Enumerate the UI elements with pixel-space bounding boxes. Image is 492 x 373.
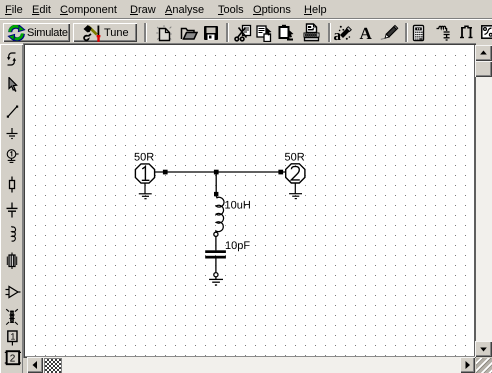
Simulate button [3,23,70,42]
palette: amplifier tool [4,284,21,300]
svg-text:10pF: 10pF [225,240,250,252]
h-scroll right button [460,357,476,373]
text tool icon [359,24,375,42]
junction node A [163,170,168,175]
palette: undo/redo tool [4,51,20,67]
palette: port/source tool [4,147,21,164]
palette: ground tool [4,126,20,142]
LC filter design icon [436,25,452,41]
v-scroll up button [475,45,492,61]
svg-text:50R: 50R [134,152,154,164]
screwdriver shaft [97,26,99,36]
palette: resistor tool [4,176,20,193]
junction node C [278,170,283,175]
open folder icon [180,26,198,41]
wire stub to ground [215,277,217,279]
print icon [302,23,321,42]
svg-text:50R: 50R [285,152,305,164]
terminal node (C-gnd) [214,273,218,277]
erase icon [333,24,352,42]
wire tee down to inductor [215,172,217,193]
wrench ring [84,36,89,41]
corner resize grip [476,358,492,373]
svg-text:10uH: 10uH [225,200,251,212]
svg-text:A: A [360,24,373,42]
svg-text:2: 2 [10,354,16,365]
svg-text:1: 1 [10,332,15,342]
terminal node (L-C) [214,232,218,236]
port 1 (50R source) [135,164,154,183]
wire L to C [215,237,217,251]
Tune button [73,23,137,42]
hammer handle [89,27,97,35]
palette: attenuator tool [4,252,20,270]
palette: inductor tool [4,225,20,242]
h-scroll thumb (checkered) [44,358,62,373]
hammer head [84,25,92,32]
ground (port 2) [289,183,302,198]
v-scroll thumb [475,61,492,77]
canvas bottom sunken edge [25,356,475,357]
palette: port 1 tool [4,329,20,348]
ground (shunt branch) [209,279,223,285]
wire port1 to port2 [155,171,286,173]
pencil icon [379,24,399,42]
cut icon [233,24,253,42]
palette: wire tool [4,104,20,120]
palette: port 2 tool [3,350,21,366]
ground (port 1) [139,183,152,198]
canvas right sunken edge [474,45,476,358]
inductor L1 10uH [216,196,224,232]
palette: capacitor tool [4,202,20,218]
vertical scrollbar track [476,45,492,357]
port 2 (50R load) [286,164,305,183]
match/smith-chart icon [481,25,492,39]
terminal pin (inductor top) [214,192,218,196]
h-scroll left button [27,357,43,373]
capacitor C1 10pF [205,250,226,253]
new file icon [156,25,173,42]
paste icon [277,24,297,42]
save icon [203,25,219,41]
palette: select pointer tool [4,77,20,93]
screwdriver red handle [97,35,101,37]
horizontal scrollbar track [27,357,475,373]
junction node B (tee) [214,170,219,175]
calculator icon [412,24,425,42]
copy icon [256,25,274,42]
coupler design icon [459,25,474,39]
wire C to ground [215,259,217,273]
v-scroll down button [475,341,492,357]
palette: transformer tool [4,308,20,327]
